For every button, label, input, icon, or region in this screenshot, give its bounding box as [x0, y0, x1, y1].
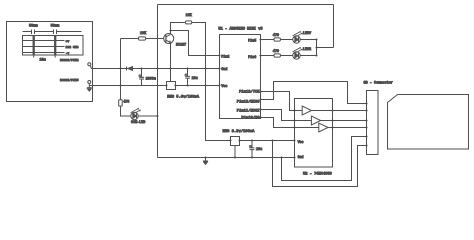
junction (294.5,120.5)	[294, 120, 296, 122]
svg-text:Pin12/MISO: Pin12/MISO	[237, 99, 261, 104]
resistor R3 11K	[186, 21, 192, 24]
junction (170.5,68.5)	[170, 68, 172, 70]
wire 10K down to COM-LED chain	[120, 39, 122, 100]
junction (316.5,39.5)	[316, 39, 318, 41]
svg-text:LEDR: LEDR	[303, 48, 311, 52]
LED1 LEDV	[293, 36, 300, 43]
svg-text:COM-LED: COM-LED	[131, 121, 145, 125]
junction (316.5,55.5)	[316, 55, 318, 57]
svg-text:LEDV: LEDV	[303, 32, 312, 36]
svg-text:Gnd: Gnd	[298, 155, 304, 159]
svg-text:U2 - 74HC4050: U2 - 74HC4050	[303, 173, 332, 177]
junction (219.5,68.5)	[219, 68, 221, 70]
regulator REG1 5.0v box	[167, 82, 176, 90]
wire pin11 mosi to buffer2	[261, 110, 312, 121]
svg-text:10u: 10u	[256, 148, 262, 152]
wire 470 to LED3	[121, 106, 131, 116]
wire LED3 to gnd bus	[138, 115, 157, 117]
junction (205.5,68.5)	[205, 68, 207, 70]
svg-text:10u: 10u	[192, 77, 198, 81]
junction (239.5,140.5)	[239, 140, 241, 142]
wire LED junction to top rail drop	[317, 47, 334, 49]
wire REG2 output 3.3v to U2 vcc	[240, 140, 295, 142]
wire top rail drop	[333, 5, 335, 48]
junction (175.5,85.5)	[175, 85, 177, 87]
buffer gate A	[302, 106, 311, 115]
wire rail B vcc	[89, 85, 219, 87]
wire LED junction vertical	[316, 40, 318, 56]
resistor R2 470 com-led	[119, 100, 123, 106]
sensor tube inner box	[23, 36, 84, 56]
junction (205.5,157.5)	[205, 157, 207, 159]
wire 11K to REG2 input	[192, 23, 231, 141]
junction (170.5,30.5)	[170, 30, 172, 32]
wire collector up to 11K	[171, 23, 186, 34]
svg-text:11K: 11K	[186, 14, 193, 18]
junction (281.5,157.5)	[281, 157, 283, 159]
IC U2 74HC4050 box	[295, 99, 333, 168]
capacitor C2 (50mm tube)	[54, 30, 57, 35]
junction (366.5,136.5)	[365, 135, 367, 137]
svg-text:SD - Connector: SD - Connector	[364, 81, 393, 86]
svg-text:U1 - ARDUINO MINI v5: U1 - ARDUINO MINI v5	[218, 28, 262, 32]
wire 232 gnd line	[23, 46, 65, 48]
junction (294.5,157.5)	[294, 157, 296, 159]
IC U1 Arduino Mini box	[220, 35, 261, 119]
resistor R5 470	[274, 54, 280, 57]
junction (235,157.5)	[234, 157, 236, 159]
ground at RS232/PIN5	[87, 87, 92, 89]
wire LED2 to junction	[300, 55, 316, 57]
capacitor C3 1000u	[139, 77, 144, 79]
svg-text:Pin6: Pin6	[248, 55, 256, 59]
buffer gate C	[319, 123, 328, 132]
junction (366.5,127.5)	[365, 126, 367, 128]
wire pin10 ss to buffer3	[261, 118, 319, 128]
wire collector branch to Pin2	[171, 31, 220, 56]
junction (157.5,68.5)	[157, 68, 159, 70]
transistor Q1 BC237	[164, 34, 174, 44]
capacitor C4 10u	[185, 76, 190, 78]
junction (316.5,47.5)	[316, 47, 318, 49]
svg-text:50mm: 50mm	[51, 25, 60, 29]
wire base circuit	[121, 38, 164, 40]
wire vertical bus x157	[157, 5, 159, 158]
junction (252,140.5)	[251, 140, 253, 142]
junction (205.5,85.5)	[205, 85, 207, 87]
wire 3.3v wrap to connector	[273, 141, 367, 187]
wire +v line	[23, 40, 65, 42]
svg-text:470: 470	[273, 50, 279, 54]
wire buffer3 out to connector	[328, 127, 367, 129]
junction (260.5,55.5)	[260, 55, 262, 57]
svg-text:Vcc: Vcc	[298, 140, 304, 144]
diode D1	[126, 67, 128, 71]
svg-text:232 GND: 232 GND	[66, 45, 79, 49]
svg-text:470: 470	[123, 100, 129, 104]
wire emitter to REG1 input	[170, 43, 172, 81]
junction (366.5,145.5)	[365, 144, 367, 146]
junction (260.5,91.5)	[260, 91, 262, 93]
junction (219.5,85.5)	[219, 85, 221, 87]
ground at bottom rail	[205, 158, 207, 162]
junction (187.5,68.5)	[187, 68, 189, 70]
wire bottom gnd rail	[158, 157, 295, 159]
svg-text:REG 5.0v/100mA: REG 5.0v/100mA	[167, 95, 200, 100]
resistor R1 10K	[139, 37, 146, 40]
regulator REG2 3.3v box	[231, 137, 240, 146]
junction (166.5,85.5)	[166, 85, 168, 87]
wire pin5 row	[261, 39, 293, 41]
terminal RS232/PIN2	[88, 63, 91, 66]
svg-text:+v: +v	[66, 39, 70, 43]
wire REG2 ground stem	[234, 146, 236, 158]
junction (120.5,85.5)	[120, 85, 122, 87]
svg-text:1000u: 1000u	[146, 78, 156, 82]
wire buffer1 out to connector	[311, 110, 366, 112]
SD card shape	[388, 95, 469, 150]
electrode plates right	[54, 36, 56, 56]
wire pin5 terminal to ground	[88, 84, 90, 88]
wire pin12 miso to connector	[261, 82, 367, 104]
LED2 LEDR	[293, 52, 300, 59]
junction (332.5,110.5)	[332, 110, 334, 112]
capacitor C1 (50mm tube)	[32, 30, 35, 35]
svg-text:10K: 10K	[140, 32, 147, 36]
LED3 COM-LED	[131, 112, 138, 119]
terminal RS232/PIN5	[88, 81, 91, 84]
junction (230.5,140.5)	[230, 140, 232, 142]
junction (120.5,68.5)	[120, 68, 122, 70]
junction (187.5,85.5)	[187, 85, 189, 87]
wire buffer2 out to connector	[321, 120, 367, 122]
junction (332.5,120.5)	[332, 120, 334, 122]
junction (219.5,55.5)	[219, 55, 221, 57]
svg-text:BC237: BC237	[176, 44, 186, 48]
junction (294.5,110.5)	[294, 110, 296, 112]
resistor R4 470	[274, 38, 280, 41]
electrode plates left	[33, 36, 35, 56]
svg-text:50mm: 50mm	[29, 25, 38, 29]
svg-text:Pin11/MOSI: Pin11/MOSI	[237, 109, 260, 114]
junction (366.5,103.5)	[365, 102, 367, 104]
junction (294.5,127.5)	[294, 127, 296, 129]
junction (141.5,68.5)	[141, 68, 143, 70]
electrode legs below box	[34, 55, 56, 58]
wire LED1 to junction	[300, 39, 316, 41]
svg-text:Pin2: Pin2	[221, 54, 229, 58]
junction (366.5,110.5)	[365, 109, 367, 111]
svg-text:REG 3.3v/100mA: REG 3.3v/100mA	[223, 129, 256, 134]
svg-text:Gnd: Gnd	[221, 67, 227, 71]
connector box	[367, 91, 379, 155]
junction (272.5,140.5)	[272, 140, 274, 142]
junction (294.5,140.5)	[294, 140, 296, 142]
capacitor C5 10u	[250, 148, 255, 150]
svg-text:Vcc: Vcc	[221, 84, 227, 88]
svg-text:RS232/PIN2: RS232/PIN2	[60, 58, 79, 62]
junction (260.5,99.5)	[260, 99, 262, 101]
sensor assembly outer box	[7, 22, 93, 102]
wire -v line	[23, 52, 65, 54]
junction (260.5,39.5)	[260, 39, 262, 41]
svg-text:Pin5: Pin5	[248, 38, 256, 42]
svg-text:Pin10/SS: Pin10/SS	[241, 116, 260, 121]
wire gnd wrap to connector	[282, 137, 367, 181]
junction (252,157.5)	[251, 157, 253, 159]
wire pin6 row	[261, 55, 293, 57]
svg-text:-v: -v	[66, 51, 70, 55]
wire pin13 tck to buffer1	[261, 92, 303, 111]
junction (260.5,117.5)	[260, 117, 262, 119]
svg-text:Pin13/TCK: Pin13/TCK	[239, 89, 260, 94]
junction (260.5,109.5)	[260, 109, 262, 111]
junction (332.5,127.5)	[332, 127, 334, 129]
svg-text:10m: 10m	[40, 59, 46, 63]
junction (157.5,116)	[157, 115, 159, 117]
buffer gate B	[311, 116, 320, 125]
junction (366.5,120.5)	[365, 119, 367, 121]
svg-text:470: 470	[273, 34, 279, 38]
svg-text:RS232/PIN5: RS232/PIN5	[60, 78, 79, 82]
wire top electrode feed	[23, 31, 82, 33]
wire top rail	[158, 4, 334, 6]
wire rail A gnd	[91, 68, 219, 70]
